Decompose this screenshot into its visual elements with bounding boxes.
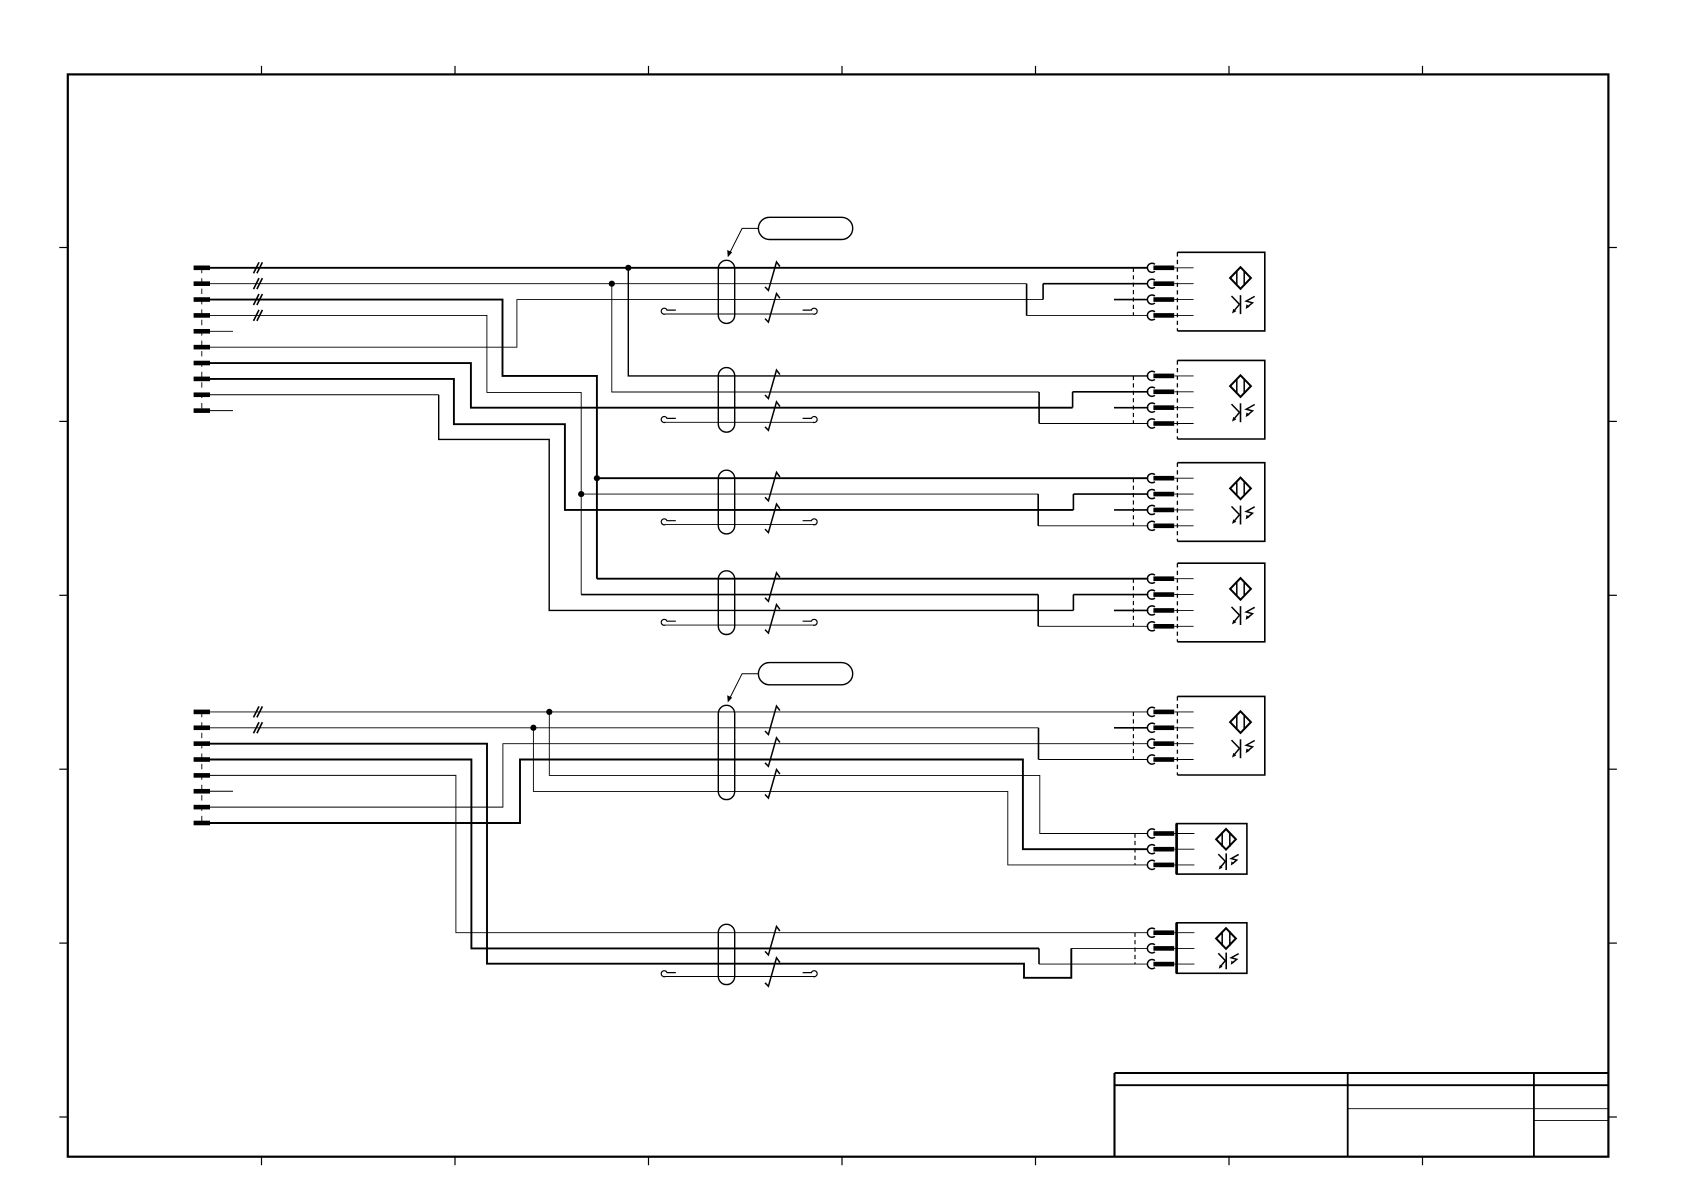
wire net M feed B7 pin2	[1071, 947, 1147, 949]
wire net I pin9 run	[210, 395, 1073, 611]
wire net B branch	[612, 284, 1039, 392]
wire stub B4 pin3	[1114, 609, 1148, 611]
wire group mark X1 wire 4	[254, 310, 263, 321]
sensor B2 connector dashed line	[1132, 376, 1134, 424]
connector X1 pin 2	[194, 281, 210, 286]
sensor B2 receiver symbol	[1232, 403, 1255, 422]
wire stub X1 pin10	[210, 410, 233, 412]
sensor B6 pin 1	[1147, 829, 1194, 838]
wire net D to B4 pin4 jog	[581, 595, 1148, 627]
wire net D pin4 run	[210, 315, 581, 594]
sensor B2 pin 4	[1147, 419, 1193, 428]
cable shield oval W3	[718, 470, 734, 534]
sensor B4 body	[1177, 563, 1264, 642]
junction dot net A	[625, 265, 631, 271]
connector X1 pin 10	[194, 408, 210, 413]
sensor B2 pin 1	[1147, 371, 1193, 380]
connector X2 pin 6	[194, 789, 210, 794]
junction dot net L	[530, 725, 536, 731]
cable shield oval W4	[718, 571, 734, 635]
sensor B1 body	[1177, 252, 1264, 331]
wire group mark X1 wire 3	[254, 294, 263, 305]
connector X1 pin 6	[194, 345, 210, 350]
cable tag W5	[758, 663, 852, 685]
sensor B2 body	[1177, 360, 1264, 439]
title block outline	[1115, 1073, 1609, 1157]
sensor B1 pin 4	[1147, 311, 1193, 320]
sensor B2 pin 3	[1147, 403, 1193, 412]
wire net I jog up to B4 pin2	[1073, 595, 1148, 611]
wire group mark X1 wire 1	[254, 262, 263, 273]
wire net G jog up to B2 pin2	[1073, 392, 1149, 408]
sensor B6 body	[1177, 824, 1247, 875]
connector X2 pin 4	[194, 757, 210, 762]
sensor B7 pin 2	[1147, 944, 1194, 953]
wire net A branch to B2 pin1	[628, 268, 1148, 376]
wire stub B3 pin3	[1114, 509, 1148, 511]
wire net C to B3 pin1	[597, 477, 1148, 479]
wire net N jog down to B7 pin3	[1039, 948, 1148, 964]
sensor B1 connector dashed line	[1132, 268, 1134, 316]
wire net K branch to B6 pin1	[549, 712, 1147, 834]
sensor B7 body	[1177, 923, 1247, 974]
connector X1 dashed outline	[201, 268, 203, 411]
sensor B1 pin 2	[1147, 279, 1193, 288]
sensor B5 pin 4	[1147, 755, 1193, 764]
wire net N pin4 run	[210, 760, 1039, 949]
sensor B7 pin 1	[1147, 928, 1194, 937]
sensor B4 pin 4	[1147, 622, 1193, 631]
conductor-count slash W1 pair 1	[765, 262, 780, 291]
connector X1 pin 5	[194, 329, 210, 334]
conductor-count slash W6 pair 2	[765, 958, 780, 987]
sensor B4 connector dashed line	[1132, 579, 1134, 627]
title block divider 1	[1347, 1073, 1349, 1157]
connector X2 pin 1	[194, 710, 210, 715]
sensor B3 body	[1177, 463, 1264, 542]
sensor B7 connector dashed line	[1134, 933, 1136, 964]
connector X2 dashed outline	[201, 712, 203, 823]
connector X1 pin 9	[194, 392, 210, 397]
sensor B6 pin 3	[1147, 860, 1194, 869]
cable shield oval W5	[718, 705, 734, 799]
title block divider 2	[1533, 1073, 1535, 1157]
junction dot net K	[546, 709, 552, 715]
sensor B7 emitter symbol	[1216, 928, 1236, 949]
cable tag leader W1	[727, 228, 758, 257]
wire net F pin6 run	[210, 300, 1043, 348]
sensor B5 emitter symbol	[1230, 711, 1251, 733]
sensor B6 emitter symbol	[1216, 829, 1236, 850]
sensor B4 emitter symbol	[1230, 578, 1251, 600]
sensor B2 emitter symbol	[1230, 375, 1251, 397]
connector X2 pin 2	[194, 725, 210, 730]
wire net C to B4 pin1	[597, 578, 1148, 580]
wire net B jog down to B1 pin4	[1027, 284, 1148, 316]
conductor-count slash W2 pair 1	[765, 370, 780, 399]
sensor B4 pin 3	[1147, 606, 1193, 615]
sensor B5 connector dashed line	[1132, 712, 1134, 760]
sensor B5 pin 1	[1147, 707, 1193, 716]
conductor-count slash W3 pair 1	[765, 472, 780, 501]
title block row line	[1115, 1084, 1609, 1086]
junction dot net B	[609, 281, 615, 287]
connector X1 pin 4	[194, 313, 210, 318]
wire group mark X2 wire 1	[254, 706, 263, 717]
sensor B1 receiver symbol	[1232, 295, 1255, 314]
connector X2 pin 7	[194, 805, 210, 810]
connector X1 pin 3	[194, 297, 210, 302]
wire net P pin7 run	[210, 744, 1147, 807]
cable tag W1	[758, 217, 852, 239]
conductor-count slash W5 pair 2	[765, 738, 780, 767]
cable tag leader W5	[727, 674, 758, 703]
wire stub X1 pin5	[210, 330, 233, 332]
sensor B7 pin 3	[1147, 960, 1194, 969]
wire net H jog up to B3 pin2	[1073, 494, 1148, 510]
border zone ticks left and right	[59, 248, 1617, 1118]
sensor B4 receiver symbol	[1232, 606, 1255, 625]
shield drain wire W1 shield	[661, 308, 817, 314]
connector X1 pin 1	[194, 266, 210, 271]
sensor B1 pin 3	[1147, 295, 1193, 304]
wire net G pin7 run	[210, 363, 1073, 408]
conductor-count slash W4 pair 2	[765, 605, 780, 634]
sensor B6 connector dashed line	[1134, 834, 1136, 865]
sensor B3 connector dashed line	[1132, 478, 1134, 526]
sensor B5 body	[1177, 696, 1264, 775]
sensor B4 pin 1	[1147, 574, 1193, 583]
wire group mark X2 wire 2	[254, 722, 263, 733]
connector X1 pin 8	[194, 377, 210, 382]
sensor B1 emitter symbol	[1230, 267, 1251, 289]
sensor B3 emitter symbol	[1230, 478, 1251, 500]
cable shield oval W1	[718, 260, 734, 323]
wire net B pin2 bus	[210, 283, 1027, 285]
sensor B6 receiver symbol	[1218, 853, 1238, 870]
wire net B jog down to B2 pin4	[1039, 392, 1148, 424]
conductor-count slash W5 pair 1	[765, 706, 780, 735]
sensor B3 pin 2	[1147, 489, 1193, 498]
wire stub B5 pin2	[1114, 727, 1147, 729]
sensor B3 pin 1	[1147, 474, 1193, 483]
sensor B4 pin 2	[1147, 590, 1193, 599]
wire net L branch to B6 pin3	[533, 728, 1147, 865]
sensor B3 receiver symbol	[1232, 506, 1255, 525]
wire net A pin1 bus	[210, 267, 1147, 269]
sensor B1 pin 1	[1147, 263, 1193, 272]
junction dot net D	[578, 491, 584, 497]
connector X1 pin 7	[194, 361, 210, 366]
wire net C pin3 run	[210, 300, 597, 579]
connector X2 pin 8	[194, 821, 210, 826]
sensor B5 pin 2	[1147, 723, 1193, 732]
wire group mark X1 wire 2	[254, 278, 263, 289]
shield drain wire W3 shield	[661, 519, 817, 525]
sensor B7 receiver symbol	[1218, 953, 1238, 970]
wire net K pin1 bus	[210, 711, 1147, 713]
wire net L jog down to B5 pin4	[1039, 728, 1148, 760]
connector X2 pin 3	[194, 741, 210, 746]
border zone ticks top and bottom	[262, 66, 1423, 1165]
connector X2 pin 5	[194, 773, 210, 778]
wire net D to B3 pin4 jog	[581, 494, 1148, 526]
wire stub X2 pin6	[210, 790, 233, 792]
wire net Q pin8 run	[210, 760, 1148, 850]
cable shield oval W2	[718, 368, 734, 433]
wire net O pin5 run	[210, 775, 1148, 932]
shield drain wire W4 shield	[661, 619, 817, 625]
wire net H pin8 run	[210, 379, 1073, 510]
shield drain wire W6 shield	[661, 971, 817, 977]
wire net L pin2 bus	[210, 727, 1039, 729]
conductor-count slash W3 pair 2	[765, 504, 780, 532]
conductor-count slash W4 pair 1	[765, 573, 780, 602]
sensor B3 pin 3	[1147, 505, 1193, 514]
sensor B3 pin 4	[1147, 521, 1193, 530]
sensor B5 pin 3	[1147, 739, 1193, 748]
wire stub B1 pin3	[1114, 299, 1147, 301]
shield drain wire W2 shield	[661, 417, 817, 423]
cable shield oval W6	[718, 924, 734, 984]
wire net F jog up to B1 pin2	[1043, 284, 1147, 300]
conductor-count slash W2 pair 2	[765, 402, 780, 431]
title block middle cell line	[1348, 1108, 1609, 1110]
conductor-count slash W6 pair 1	[765, 926, 780, 955]
title block right cell line	[1534, 1120, 1609, 1122]
sensor B6 pin 2	[1147, 845, 1194, 854]
junction dot net C	[594, 475, 600, 481]
conductor-count slash W5 pair 3	[765, 770, 780, 799]
wire stub B2 pin3	[1114, 407, 1148, 409]
wire net M pin3 run	[210, 744, 1071, 978]
sensor B5 receiver symbol	[1232, 739, 1255, 758]
sensor B2 pin 2	[1147, 387, 1193, 396]
conductor-count slash W1 pair 2	[765, 294, 780, 323]
